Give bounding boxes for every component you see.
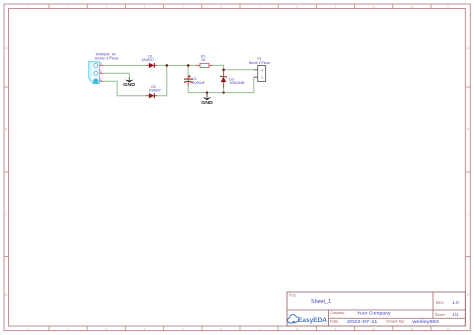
svg-text:Your Company: Your Company <box>357 310 391 315</box>
junction dot D2/D1 top rail <box>166 64 169 67</box>
svg-text:1k: 1k <box>201 58 205 62</box>
wire pin1 to D2 loop <box>103 65 167 95</box>
diode D2 <box>148 85 161 99</box>
svg-text:B: B <box>5 128 7 132</box>
connector pin 2 circle <box>94 71 98 75</box>
wire net: top rail segments <box>103 65 258 95</box>
frame zone ticks top <box>49 4 431 9</box>
svg-text:GND: GND <box>123 82 135 87</box>
svg-text:12: 12 <box>447 5 451 9</box>
ground GND2 <box>201 93 213 105</box>
svg-text:Date:: Date: <box>330 320 339 324</box>
resistor R1 <box>200 55 209 68</box>
svg-text:TITLE:: TITLE: <box>289 294 297 298</box>
svg-text:Drawn By:: Drawn By: <box>386 320 405 324</box>
frame zone ticks right <box>465 87 470 257</box>
svg-text:1.0: 1.0 <box>452 300 459 305</box>
svg-text:REV:: REV: <box>436 301 445 305</box>
connector P1 <box>249 57 270 82</box>
junction dot GND2 tap <box>206 91 208 93</box>
title block divider row1/row2 <box>287 309 465 311</box>
title block divider row2/row3 <box>329 317 466 319</box>
svg-text:Sheet_1: Sheet_1 <box>311 299 331 305</box>
wire bottom rail <box>188 77 258 92</box>
zener D3 leads <box>223 70 225 77</box>
wire pin2 to GND <box>103 73 129 77</box>
frame zone letters right <box>467 46 470 297</box>
frame zone numbers bottom <box>28 327 450 331</box>
resistor R1 leads <box>196 64 200 66</box>
svg-text:1/1: 1/1 <box>452 312 459 317</box>
wire pin3 to R1 <box>103 64 200 66</box>
EasyEDA logo cloud <box>288 315 299 323</box>
svg-text:10: 10 <box>372 5 376 9</box>
capacitor C1 leads <box>187 76 189 79</box>
connector TRANSF_IN body <box>89 62 100 84</box>
frame zone numbers top <box>28 5 450 9</box>
title block outline <box>287 292 465 326</box>
junction dot C1 tap <box>187 64 190 67</box>
ground GND1 <box>123 77 135 87</box>
svg-text:EasyEDA: EasyEDA <box>298 317 327 324</box>
wire C1 branch vertical <box>187 65 189 92</box>
svg-text:2022-07-11: 2022-07-11 <box>347 319 378 324</box>
svg-text:12: 12 <box>447 327 451 331</box>
svg-text:Borne 3 Pinos: Borne 3 Pinos <box>95 57 119 61</box>
component red lead stubs <box>98 65 223 95</box>
capacitor C1 (polarized) <box>184 75 206 85</box>
frame zone ticks bottom <box>49 326 431 331</box>
svg-text:11: 11 <box>410 327 413 331</box>
frame zone letters left <box>5 46 8 297</box>
connector pin 1 circle (filled) <box>94 79 98 83</box>
wire junction to P1 pin1 <box>224 69 258 71</box>
frame zone ticks left <box>4 87 9 257</box>
svg-text:1N4007: 1N4007 <box>148 89 161 93</box>
svg-text:Company:: Company: <box>330 311 345 315</box>
svg-text:wesley993: wesley993 <box>412 319 439 324</box>
connector pin stubs <box>98 64 103 66</box>
diode D1 <box>142 55 155 69</box>
svg-text:C1: C1 <box>192 77 197 81</box>
svg-text:10: 10 <box>372 327 376 331</box>
junction dot D3/P1 <box>222 69 225 72</box>
svg-text:GND: GND <box>201 100 213 105</box>
svg-text:B: B <box>467 128 469 132</box>
junction dot D3 bottom <box>222 91 224 93</box>
svg-text:1000uF: 1000uF <box>193 81 206 85</box>
svg-text:1N5234B: 1N5234B <box>229 81 245 85</box>
title block divider rev column <box>432 292 434 318</box>
diode D1 leads <box>146 64 150 66</box>
connector pin numbers <box>100 62 102 82</box>
svg-text:1N4007: 1N4007 <box>142 58 155 62</box>
svg-text:11: 11 <box>410 5 413 9</box>
title block divider logo cell <box>328 310 330 326</box>
svg-text:Sheet:: Sheet: <box>435 313 446 317</box>
zener diode D3 <box>221 75 245 85</box>
connector TRANSF_IN inner edge <box>90 62 92 78</box>
connector pin 3 circle <box>94 63 98 67</box>
wire R1 to corner and down <box>209 65 224 92</box>
diode D2 leads <box>146 95 150 97</box>
svg-text:Borne 2 Pinos: Borne 2 Pinos <box>249 61 270 65</box>
